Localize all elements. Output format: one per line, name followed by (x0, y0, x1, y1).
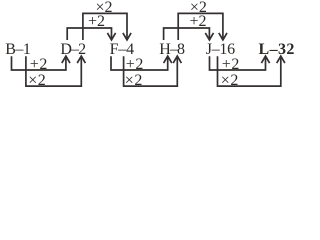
svg-text:×2: ×2 (221, 72, 239, 89)
arrowhead up at D letter (62, 56, 70, 63)
arrowhead up at 8 digit (173, 56, 181, 63)
arrowhead down at 16 digits (219, 33, 227, 40)
arrowhead up at 2 digit (77, 56, 85, 63)
top bracket D to F : times2 outer (83, 13, 127, 40)
arrowhead down at 4 digit (123, 33, 131, 40)
svg-text:+2: +2 (30, 56, 48, 73)
bottom bracket J to L : times2 outer (218, 56, 281, 86)
arrowhead down at J letter (205, 33, 213, 40)
bottom bracket J to L : plus2 inner (210, 56, 266, 70)
svg-text:+2: +2 (88, 13, 105, 30)
arrowhead down at F letter (107, 33, 115, 40)
svg-text:D–2: D–2 (60, 41, 86, 58)
top bracket H to J : times2 outer (178, 13, 223, 40)
bottom bracket B to D : times2 outer (26, 56, 81, 86)
arrowhead up at H letter (164, 56, 172, 63)
bottom bracket F to H : plus2 inner (111, 56, 168, 70)
arrowhead up at L letter (261, 56, 269, 63)
top bracket H to J : plus2 inner (164, 28, 210, 40)
svg-text:+2: +2 (126, 56, 144, 73)
svg-text:L–32: L–32 (259, 41, 295, 58)
svg-text:H–8: H–8 (159, 41, 185, 58)
svg-text:×2: ×2 (28, 72, 46, 89)
svg-text:+2: +2 (189, 13, 206, 30)
top bracket D to F : plus2 inner (67, 28, 111, 40)
svg-text:B–1: B–1 (5, 41, 31, 58)
bottom bracket F to H : times2 outer (124, 56, 178, 86)
svg-text:×2: ×2 (125, 72, 143, 89)
arrowhead up at 32 digits (277, 56, 285, 63)
svg-text:+2: +2 (222, 56, 240, 73)
bottom bracket B to D : plus2 inner (12, 56, 66, 70)
